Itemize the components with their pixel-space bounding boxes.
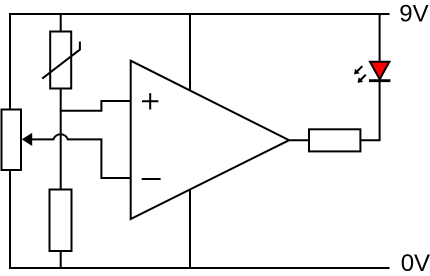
- wire thermistor top to 9V rail: [60, 13, 62, 32]
- svg-text:0V: 0V: [401, 250, 430, 276]
- resistor R2 body: [309, 129, 360, 151]
- 0V supply rail: [9, 267, 390, 269]
- LED emission arrow 1: [354, 66, 362, 74]
- wire node A to non-inverting input: [60, 101, 130, 111]
- LED cathode bar: [369, 79, 390, 82]
- op-amp U1: [131, 61, 289, 219]
- resistor R1 body: [50, 190, 72, 252]
- op-amp plus symbol: [142, 93, 158, 109]
- wire 9V rail to LED anode: [379, 13, 381, 61]
- op-amp minus symbol: [142, 178, 161, 180]
- wire op-amp output to R2: [289, 139, 309, 141]
- LED D1 body: [370, 62, 389, 80]
- wire op-amp positive supply pin to 9V rail: [189, 14, 191, 90]
- 9V supply rail: [9, 13, 390, 15]
- wire left branch upper: [9, 13, 11, 110]
- wire junction line thermistor-resistor (node A): [60, 89, 62, 191]
- LED emission arrow 2: [358, 75, 366, 83]
- wire op-amp negative supply pin to 0V rail: [189, 190, 191, 269]
- wire left branch lower: [9, 170, 11, 269]
- wire R1 bottom to 0V rail: [60, 251, 62, 269]
- thermistor diagonal strike: [42, 42, 80, 79]
- potentiometer wiper arrow: [22, 133, 32, 146]
- wire wiper to inverting input (with hop over junction line): [31, 134, 130, 178]
- wire R2 to LED cathode: [360, 80, 379, 140]
- thermistor TH1 body: [50, 32, 71, 89]
- svg-text:9V: 9V: [399, 0, 428, 27]
- potentiometer VR1: [2, 110, 22, 171]
